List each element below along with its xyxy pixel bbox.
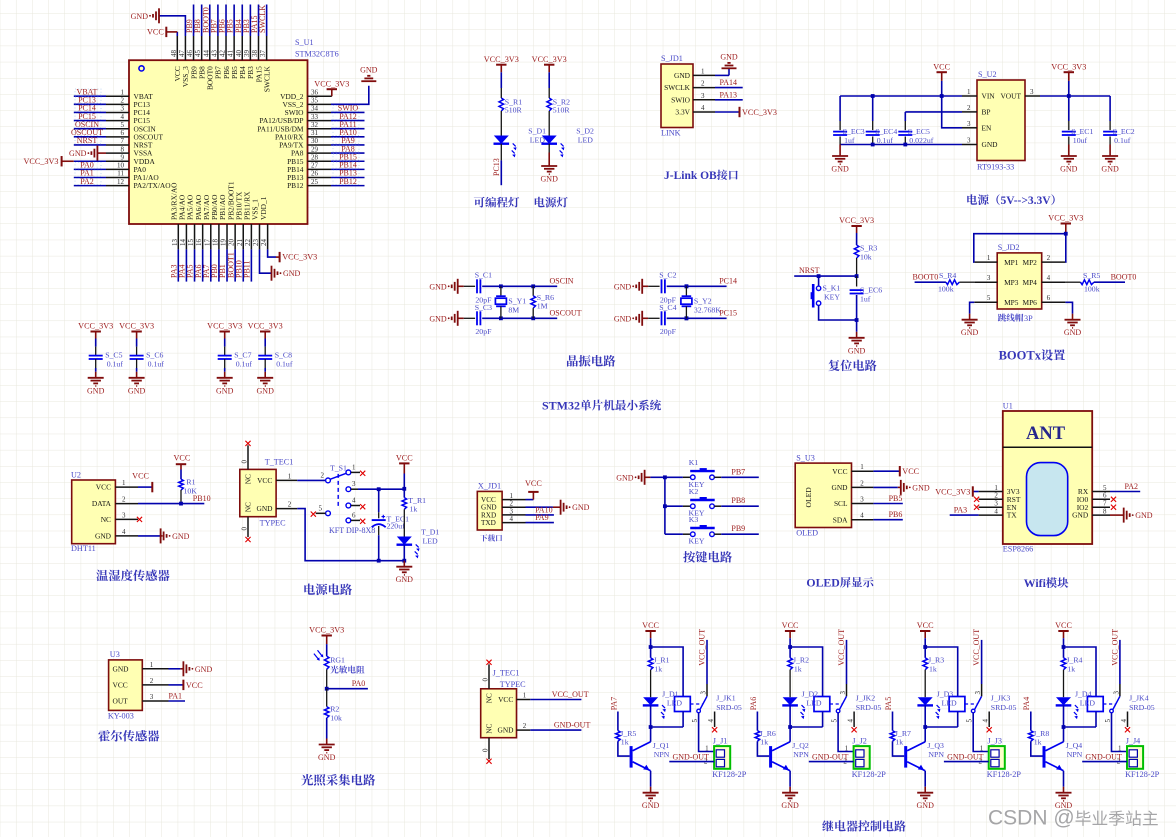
svg-text:GND: GND xyxy=(498,726,515,735)
wire pin1 VCC xyxy=(873,470,899,472)
regulator S_U2 RT9193-33 body xyxy=(977,80,1025,161)
svg-text:K2: K2 xyxy=(689,487,699,496)
wire net SWCLK xyxy=(266,5,268,37)
no-connect EN xyxy=(974,505,979,510)
svg-text:VCC_OUT: VCC_OUT xyxy=(1110,629,1119,666)
svg-text:J_JK2: J_JK2 xyxy=(856,694,876,703)
svg-text:MP5: MP5 xyxy=(1004,298,1019,307)
svg-text:510R: 510R xyxy=(553,106,571,115)
wire to key K1 xyxy=(665,476,683,478)
key K1 KEY xyxy=(683,476,690,478)
capacitor S_EC5 0.022uf xyxy=(904,112,906,121)
junction xyxy=(649,725,653,729)
svg-text:GND: GND xyxy=(674,71,691,80)
svg-text:GND: GND xyxy=(1060,165,1078,174)
junction xyxy=(402,559,406,563)
pin 28 PB15 (right) xyxy=(308,160,332,162)
pin 24 VDD_1 (bottom) xyxy=(267,224,269,249)
svg-text:VCC_3V3: VCC_3V3 xyxy=(839,216,874,225)
svg-text:3: 3 xyxy=(121,105,125,113)
ground xyxy=(136,368,138,372)
junction xyxy=(940,94,944,98)
power port VCC_3V3 xyxy=(739,107,741,117)
svg-text:J_Q4: J_Q4 xyxy=(1066,741,1083,750)
svg-text:0.1uf: 0.1uf xyxy=(236,359,253,368)
wire net PA12 xyxy=(331,120,365,122)
title 晶振电路 xyxy=(567,355,615,367)
svg-text:GND: GND xyxy=(831,483,848,492)
svg-text:9: 9 xyxy=(121,153,125,161)
svg-text:SRD-05: SRD-05 xyxy=(991,703,1017,712)
title 复位电路 xyxy=(828,360,876,371)
svg-text:OSCOUT: OSCOUT xyxy=(550,309,582,318)
svg-text:GND: GND xyxy=(1064,328,1082,337)
capacitor S_C2 20pF xyxy=(648,285,659,287)
pin 45 PB8 (top) xyxy=(201,36,203,60)
resistor J_R4 1k xyxy=(1063,647,1065,658)
caption 电源灯 xyxy=(535,197,568,208)
switch dashed link xyxy=(337,474,339,507)
svg-text:1k: 1k xyxy=(895,737,903,746)
junction xyxy=(817,274,821,278)
crystal S_Y2 xyxy=(685,286,687,296)
svg-text:LINK: LINK xyxy=(661,129,681,138)
power port VCC (power circuit) xyxy=(399,462,409,464)
svg-text:VCC: VCC xyxy=(186,681,203,690)
svg-text:J_J4: J_J4 xyxy=(1126,736,1141,745)
svg-text:NC: NC xyxy=(244,474,253,484)
svg-text:2: 2 xyxy=(321,471,325,479)
resistor J_R6 1k (base) xyxy=(756,712,758,731)
wire net VBAT xyxy=(74,95,106,97)
svg-text:GND-OUT: GND-OUT xyxy=(554,721,591,730)
svg-text:24: 24 xyxy=(260,239,268,247)
svg-text:PA7: PA7 xyxy=(609,697,618,711)
wire net PB4 xyxy=(241,5,243,37)
svg-text:3: 3 xyxy=(352,480,356,488)
svg-text:VCC_3V3: VCC_3V3 xyxy=(935,488,970,497)
pin 7 NRST (left) xyxy=(106,144,129,146)
svg-text:KF128-2P: KF128-2P xyxy=(1125,770,1160,779)
wire net VCC_OUT (rotated) xyxy=(1119,640,1121,684)
svg-text:GND: GND xyxy=(848,346,866,355)
junction xyxy=(179,502,183,506)
svg-text:0.1uf: 0.1uf xyxy=(148,359,165,368)
caption 可编程灯 xyxy=(474,197,519,208)
ground xyxy=(650,787,652,793)
svg-text:GND: GND xyxy=(128,386,146,395)
ground xyxy=(224,368,226,372)
svg-text:4: 4 xyxy=(1120,719,1128,723)
junction xyxy=(685,284,689,288)
pin 4 TX of U1 xyxy=(979,514,1003,516)
power port VCC (J_JK4 cell) xyxy=(1058,630,1068,632)
no-connect IO0 xyxy=(1111,497,1116,502)
svg-text:RG1: RG1 xyxy=(330,656,345,665)
wire switch to VCC node xyxy=(358,488,404,490)
junction xyxy=(663,504,667,508)
capacitor S_EC4 0.1uf xyxy=(872,96,874,121)
svg-text:MP1: MP1 xyxy=(1004,258,1019,267)
svg-text:1: 1 xyxy=(967,88,971,96)
wire net NRST xyxy=(794,275,856,277)
svg-text:KEY: KEY xyxy=(689,537,705,546)
svg-text:PA0: PA0 xyxy=(352,679,366,688)
svg-text:GND-OUT: GND-OUT xyxy=(1085,752,1122,761)
junction xyxy=(855,274,859,278)
wire net GND-OUT xyxy=(809,761,854,763)
svg-text:26: 26 xyxy=(311,170,319,178)
pin 48 VCC (top) xyxy=(176,36,178,60)
connector S_JD1 LINK body xyxy=(661,64,693,128)
svg-text:30: 30 xyxy=(311,137,319,145)
wire net PA15 xyxy=(258,5,260,37)
svg-text:20pF: 20pF xyxy=(660,327,677,336)
svg-text:2: 2 xyxy=(523,722,527,730)
pin 3 GND of S_U2 xyxy=(962,144,977,146)
svg-text:18: 18 xyxy=(211,239,219,247)
svg-text:OUT: OUT xyxy=(113,697,129,706)
ground (keys) xyxy=(644,470,646,485)
svg-text:PA2: PA2 xyxy=(1125,482,1139,491)
svg-text:45: 45 xyxy=(194,50,202,58)
pin 43 PB7 (top) xyxy=(217,36,219,60)
junction xyxy=(663,475,667,479)
svg-text:0: 0 xyxy=(482,748,490,752)
power port VCC xyxy=(532,492,534,500)
pin 3 EN of S_U2 xyxy=(962,127,977,129)
svg-text:J_J3: J_J3 xyxy=(987,736,1002,745)
svg-text:4: 4 xyxy=(707,719,715,723)
power port VCC_3V3 (S_C7) xyxy=(220,331,230,333)
svg-text:MP6: MP6 xyxy=(1023,298,1038,307)
svg-text:GND: GND xyxy=(961,328,979,337)
svg-text:BP: BP xyxy=(982,108,991,117)
svg-text:33: 33 xyxy=(311,113,319,121)
wire net PB7 xyxy=(721,476,759,478)
pin 5 RX of U1 xyxy=(1092,491,1110,493)
ground xyxy=(264,368,266,372)
svg-text:1k: 1k xyxy=(654,664,662,673)
svg-text:KF128-2P: KF128-2P xyxy=(712,770,747,779)
svg-text:KF128-2P: KF128-2P xyxy=(852,770,887,779)
relay J_JK1 contacts xyxy=(690,703,702,705)
svg-text:10k: 10k xyxy=(860,253,872,262)
capacitor S_C3 20pF xyxy=(464,317,475,319)
resistor T_R1 1k xyxy=(403,489,405,498)
svg-text:S_C8: S_C8 xyxy=(275,350,292,359)
svg-text:29: 29 xyxy=(311,145,319,153)
resistor J_R1 1k xyxy=(650,647,652,658)
pin 1 VBAT (left) xyxy=(106,95,129,97)
svg-text:1: 1 xyxy=(288,472,292,480)
wire net PA10 xyxy=(526,514,554,516)
svg-text:SCL: SCL xyxy=(834,499,848,508)
pin 29 PA8 (right) xyxy=(308,152,332,154)
svg-text:VCC: VCC xyxy=(498,695,513,704)
LED J_D4 xyxy=(1056,697,1071,705)
svg-text:GND: GND xyxy=(257,504,274,513)
wire net PB8 xyxy=(201,5,203,37)
junction xyxy=(1062,725,1066,729)
wire net PC13 xyxy=(500,144,502,161)
svg-text:VCC_3V3: VCC_3V3 xyxy=(742,108,777,117)
pin 5 OSCIN (left) xyxy=(106,128,129,130)
svg-text:STM32C8T6: STM32C8T6 xyxy=(295,49,339,58)
wire net PB6 xyxy=(873,519,902,521)
svg-text:GND: GND xyxy=(318,753,336,762)
svg-text:46: 46 xyxy=(186,50,194,58)
switch T_S1 KFT DIP-8X8 xyxy=(326,478,331,483)
svg-text:VIN: VIN xyxy=(982,92,996,101)
svg-text:3: 3 xyxy=(1030,88,1034,96)
pin 40 PB4 (top) xyxy=(241,36,243,60)
LED J_D1 xyxy=(643,697,658,705)
svg-text:SRD-05: SRD-05 xyxy=(1129,703,1155,712)
svg-text:GND: GND xyxy=(831,165,849,174)
svg-text:GND: GND xyxy=(95,532,112,541)
wire net PB13 xyxy=(331,177,365,179)
pin 35 VSS_2 (right) xyxy=(308,103,332,105)
power port VCC_3V3 xyxy=(1061,223,1071,225)
svg-text:GND: GND xyxy=(257,386,275,395)
wire relay pin5 to connector xyxy=(1112,713,1128,752)
display S_U3 OLED body xyxy=(795,463,851,527)
svg-text:7: 7 xyxy=(1103,500,1107,508)
wire net PA9 xyxy=(331,144,365,146)
wire net PA11 xyxy=(331,128,365,130)
svg-text:39: 39 xyxy=(243,50,251,58)
svg-text:SDA: SDA xyxy=(833,515,848,524)
svg-text:GND: GND xyxy=(572,503,590,512)
capacitor S_EC6 1uf xyxy=(856,276,858,286)
junction xyxy=(402,487,406,491)
wire net PB9 xyxy=(721,533,759,535)
wire net GND-OUT xyxy=(530,729,581,731)
svg-text:GND: GND xyxy=(781,801,799,810)
svg-text:44: 44 xyxy=(202,50,210,58)
svg-text:VCC_OUT: VCC_OUT xyxy=(698,629,707,666)
svg-text:S_C1: S_C1 xyxy=(475,271,492,280)
svg-text:20: 20 xyxy=(228,239,236,247)
pin 0 (top) of T_TEC1 xyxy=(247,445,249,469)
svg-text:TXD: TXD xyxy=(481,519,496,527)
ground xyxy=(969,314,971,320)
wire 3V3 to VCC_3V3 xyxy=(973,491,979,493)
crystal S_Y1 xyxy=(500,286,502,296)
svg-text:1k: 1k xyxy=(1067,664,1075,673)
wire MP6 to ground xyxy=(1065,302,1072,313)
svg-text:NC: NC xyxy=(485,693,494,703)
title 电源电路 xyxy=(304,584,352,596)
capacitor S_C6 0.1uf xyxy=(136,339,138,347)
svg-text:8: 8 xyxy=(121,145,125,153)
power port GND at MCU pin 47 VSS_3 xyxy=(159,16,185,36)
svg-text:U1: U1 xyxy=(1003,401,1013,410)
svg-text:S_U3: S_U3 xyxy=(796,453,815,462)
pin 22 PB11/RX (bottom) xyxy=(250,224,252,249)
svg-text:GND-OUT: GND-OUT xyxy=(673,752,710,761)
svg-text:0.022uf: 0.022uf xyxy=(909,136,933,145)
svg-text:1M: 1M xyxy=(537,302,548,311)
junction xyxy=(499,316,503,320)
svg-text:5: 5 xyxy=(319,504,323,512)
junction xyxy=(685,316,689,320)
svg-text:0: 0 xyxy=(482,678,490,682)
pin 1 VIN of S_U2 xyxy=(962,95,977,97)
svg-text:VCC_3V3: VCC_3V3 xyxy=(119,322,154,331)
svg-text:15: 15 xyxy=(187,239,195,247)
svg-text:2: 2 xyxy=(1047,254,1051,262)
pin 27 PB14 (right) xyxy=(308,168,332,170)
svg-text:J_JK1: J_JK1 xyxy=(716,694,736,703)
svg-text:34: 34 xyxy=(311,105,319,113)
wire net VCC_OUT (rotated) xyxy=(706,640,708,684)
svg-text:R2: R2 xyxy=(330,705,339,714)
junction xyxy=(531,284,535,288)
svg-text:S_R6: S_R6 xyxy=(537,293,554,302)
svg-text:1: 1 xyxy=(121,88,125,96)
relay J_JK2 contacts xyxy=(830,703,842,705)
svg-text:ANT: ANT xyxy=(1026,424,1066,444)
svg-text:VCC: VCC xyxy=(147,28,164,37)
svg-text:1: 1 xyxy=(122,479,126,487)
wire pin2 VCC xyxy=(169,684,184,686)
svg-text:KY-003: KY-003 xyxy=(108,712,134,721)
svg-text:STM32: STM32 xyxy=(542,399,580,413)
svg-text:PA6: PA6 xyxy=(749,697,758,711)
connector J_J4 KF128-2P xyxy=(1127,746,1143,769)
wire net VCC_OUT (rotated) xyxy=(981,640,983,684)
wire relay pin5 to connector xyxy=(973,713,989,752)
capacitor T_EC1 220uf electrolytic xyxy=(378,489,380,512)
wire net PA14 xyxy=(715,87,743,89)
svg-text:GND-OUT: GND-OUT xyxy=(947,752,984,761)
svg-text:VCC: VCC xyxy=(832,467,847,476)
connector J_J3 KF128-2P xyxy=(989,746,1005,769)
power port GND at MCU pin 23 VSS_1 xyxy=(260,249,272,273)
svg-text:GND: GND xyxy=(1072,511,1089,520)
svg-text:23: 23 xyxy=(252,239,260,247)
svg-text:U2: U2 xyxy=(71,470,81,479)
svg-text:5: 5 xyxy=(1103,484,1107,492)
svg-text:28: 28 xyxy=(311,153,319,161)
pin 2 RST of U1 xyxy=(979,498,1003,500)
wire net PA4 xyxy=(185,249,187,281)
svg-text:GND: GND xyxy=(616,473,634,482)
title 温湿度传感器 xyxy=(96,569,169,581)
svg-text:1k: 1k xyxy=(410,505,418,514)
svg-text:PB6: PB6 xyxy=(889,510,903,519)
pin 18 PB0/AO (bottom) xyxy=(218,224,220,249)
svg-text:1: 1 xyxy=(860,463,864,471)
wire net PB10 xyxy=(242,249,244,281)
svg-text:NC: NC xyxy=(485,723,494,733)
pin 9 VDDA (left) xyxy=(106,160,129,162)
svg-text:1: 1 xyxy=(987,254,991,262)
svg-text:1k: 1k xyxy=(1034,737,1042,746)
svg-text:48: 48 xyxy=(170,50,178,58)
svg-text:J_R3: J_R3 xyxy=(928,655,944,664)
svg-text:21: 21 xyxy=(236,239,244,247)
junction xyxy=(1064,232,1068,236)
svg-text:6: 6 xyxy=(1047,294,1051,302)
svg-text:MP2: MP2 xyxy=(1023,258,1038,267)
ground (side) xyxy=(160,528,162,543)
svg-text:3: 3 xyxy=(987,274,991,282)
pin 47 VSS_3 (top) xyxy=(184,36,186,60)
photoresistor RG1 xyxy=(326,644,328,656)
relay J_JK4 SRD-05 coil xyxy=(1087,697,1103,712)
svg-text:40: 40 xyxy=(235,50,243,58)
svg-text:1uf: 1uf xyxy=(860,294,871,303)
wire net PA9 xyxy=(526,522,554,524)
svg-text:1uf: 1uf xyxy=(844,136,855,145)
svg-text:U3: U3 xyxy=(110,650,120,659)
wire net PA0 xyxy=(327,688,368,690)
wire net GND-OUT xyxy=(669,761,714,763)
power port VCC xyxy=(182,680,184,690)
wire EN to VIN xyxy=(942,96,962,128)
svg-text:GND: GND xyxy=(172,532,190,541)
ground (side) xyxy=(900,480,902,495)
svg-text:K1: K1 xyxy=(689,458,699,467)
svg-text:3: 3 xyxy=(994,500,998,508)
svg-text:VCC_3V3: VCC_3V3 xyxy=(78,322,113,331)
svg-text:4: 4 xyxy=(847,719,855,723)
wire net NRST xyxy=(74,144,106,146)
wire MP1-VCC_3V3-MP2 loop xyxy=(974,234,1066,262)
svg-text:GND: GND xyxy=(1101,165,1119,174)
wire to key K2 xyxy=(665,505,683,507)
svg-text:PB7: PB7 xyxy=(731,467,745,476)
svg-text:10: 10 xyxy=(117,162,125,170)
wire xyxy=(548,72,550,88)
svg-text:VCC: VCC xyxy=(113,681,128,690)
svg-text:GND: GND xyxy=(1135,511,1153,520)
svg-text:PB5: PB5 xyxy=(889,494,903,503)
svg-text:J_R4: J_R4 xyxy=(1066,655,1082,664)
pin 11 PA1/AO (left) xyxy=(106,177,129,179)
wire VCC branch xyxy=(924,638,926,647)
svg-text:S_Y2: S_Y2 xyxy=(694,297,712,306)
svg-text:17: 17 xyxy=(203,239,211,247)
svg-text:S_C7: S_C7 xyxy=(234,350,251,359)
svg-text:LED: LED xyxy=(667,698,683,707)
svg-text:SWCLK: SWCLK xyxy=(262,66,271,93)
resistor J_R5 1k (base) xyxy=(617,712,619,731)
svg-text:MP4: MP4 xyxy=(1023,278,1038,287)
svg-text:VCC_3V3: VCC_3V3 xyxy=(207,322,242,331)
power port GND at MCU pin 35 VSS_2 xyxy=(331,86,369,105)
svg-text:PB9: PB9 xyxy=(731,524,745,533)
svg-text:GND: GND xyxy=(360,66,378,75)
svg-text:RT9193-33: RT9193-33 xyxy=(977,163,1014,172)
wire emitter to ground xyxy=(650,771,652,787)
junction xyxy=(1062,645,1066,649)
wire net PA3 xyxy=(950,514,979,516)
svg-text:NC: NC xyxy=(101,515,111,524)
relay J_JK3 SRD-05 coil xyxy=(949,697,965,712)
svg-text:J_D3: J_D3 xyxy=(937,689,954,698)
sensor U3 KY-003 body xyxy=(109,660,143,711)
capacitor S_C5 0.1uf xyxy=(95,339,97,347)
svg-text:GND: GND xyxy=(195,665,213,674)
svg-text:12: 12 xyxy=(117,178,125,186)
wire OSC row1 xyxy=(667,285,727,287)
svg-text:S_D2: S_D2 xyxy=(576,127,594,136)
wire net GND-OUT xyxy=(944,761,989,763)
